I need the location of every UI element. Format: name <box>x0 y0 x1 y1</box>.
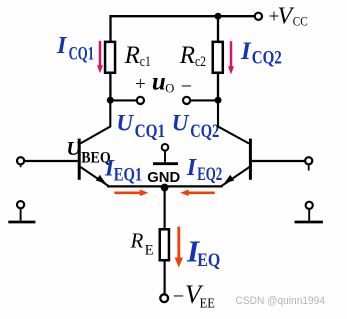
ground symbol source right: circle <box>306 202 313 209</box>
wire Rc2 bottom <box>217 74 219 100</box>
node junction Rc2/VCC <box>215 13 222 20</box>
terminal input right <box>305 157 312 164</box>
svg-text:GND: GND <box>147 169 180 186</box>
ground symbol center: bar <box>153 162 178 165</box>
svg-text:EQ: EQ <box>197 250 220 271</box>
arrow IEQ (orange, down) <box>177 227 180 259</box>
wire Rc2 top <box>217 16 219 41</box>
svg-text:c2: c2 <box>195 54 206 70</box>
transistor Q1 emitter wire <box>81 167 109 186</box>
svg-text:U: U <box>116 111 134 136</box>
svg-text:−: − <box>173 285 185 307</box>
transistor Q2 emitter arrowhead <box>224 175 234 184</box>
resistor Rc2 <box>213 42 223 73</box>
svg-text:u: u <box>152 69 166 96</box>
transistor Q2 base bar <box>249 139 252 180</box>
svg-text:U: U <box>66 138 82 160</box>
svg-text:I: I <box>240 38 252 65</box>
wire top rail VCC <box>109 15 254 17</box>
node emitter center <box>161 184 169 192</box>
transistor Q1 base bar <box>78 139 81 180</box>
svg-text:O: O <box>165 82 174 96</box>
svg-text:CQ1: CQ1 <box>69 43 95 64</box>
ground symbol source left: bar <box>8 221 35 224</box>
wire emitter rail <box>107 185 223 187</box>
svg-text:c1: c1 <box>140 54 151 70</box>
ground symbol source left: stem <box>20 209 22 221</box>
node collector Q2 <box>215 97 222 104</box>
transistor Q1 emitter arrowhead <box>96 175 106 184</box>
ground symbol source right: bar <box>295 221 323 224</box>
ground symbol center: stem <box>164 151 166 162</box>
svg-text:U: U <box>172 111 190 136</box>
arrow IEQ1 (orange, right) <box>114 192 140 195</box>
wire uo terminal to collector2 <box>191 99 218 101</box>
svg-text:CQ2: CQ2 <box>252 48 282 69</box>
wire Q1 base <box>25 160 78 162</box>
wire input left stub <box>20 165 22 167</box>
node collector Q1 <box>107 97 114 104</box>
terminal uo plus <box>137 97 144 104</box>
terminal uo minus <box>183 97 190 104</box>
terminal +VCC <box>255 13 262 20</box>
svg-text:EQ1: EQ1 <box>114 164 143 185</box>
svg-text:E: E <box>145 243 154 259</box>
svg-text:+: + <box>135 74 146 95</box>
ground symbol source right: stem <box>308 210 310 221</box>
svg-text:CQ1: CQ1 <box>135 121 166 142</box>
ground symbol source left: circle <box>17 201 24 208</box>
svg-text:EE: EE <box>200 297 215 312</box>
svg-text:CQ2: CQ2 <box>190 121 219 142</box>
svg-text:−: − <box>181 76 192 98</box>
svg-text:R: R <box>124 42 140 69</box>
wire Rc1 top <box>109 15 111 41</box>
arrow IEQ2 (orange, left) <box>189 192 215 195</box>
arrow ICQ2 (crimson, down) <box>230 41 233 67</box>
svg-text:I: I <box>56 33 68 59</box>
ground symbol center: terminal circle <box>162 144 169 151</box>
wire collector1 to uo terminal <box>110 99 136 101</box>
svg-text:I: I <box>186 155 198 181</box>
terminal -VEE <box>160 294 168 302</box>
transistor Q2 collector wire <box>218 99 249 144</box>
svg-text:EQ2: EQ2 <box>197 164 222 185</box>
svg-text:CC: CC <box>293 14 308 29</box>
arrow ICQ1 (crimson, down) <box>99 41 102 66</box>
resistor RE <box>160 229 169 260</box>
svg-text:R: R <box>130 229 144 253</box>
transistor Q1 collector wire <box>80 99 110 144</box>
terminal input left <box>17 157 24 164</box>
wire emitter node to RE <box>164 188 166 230</box>
wire Rc1 bottom <box>109 74 111 100</box>
wire RE to VEE <box>164 262 166 294</box>
resistor Rc1 <box>105 42 115 73</box>
wire input right stem <box>308 165 310 170</box>
wire Q2 base <box>252 160 305 162</box>
svg-text:CSDN @quinn1994: CSDN @quinn1994 <box>236 295 326 307</box>
transistor Q2 emitter wire <box>222 167 250 186</box>
svg-text:R: R <box>179 42 195 69</box>
